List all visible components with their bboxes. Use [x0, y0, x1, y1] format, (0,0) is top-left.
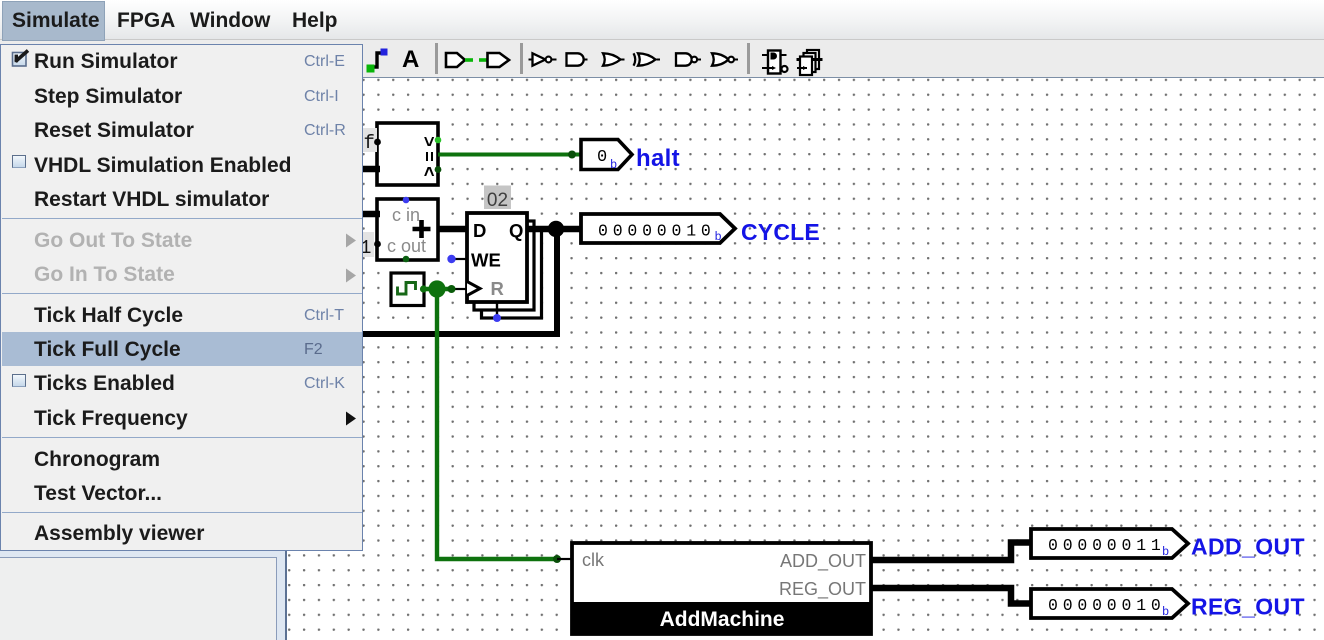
- wire: register Q output bus: [527, 226, 581, 233]
- svg-text:A: A: [402, 46, 419, 73]
- tool: NOR gate icon: [712, 53, 738, 65]
- toolbar separator: [747, 43, 750, 74]
- wire: ADD_OUT bus: [871, 543, 1031, 561]
- svg-text:b: b: [610, 158, 617, 172]
- toolbar separator: [520, 43, 523, 74]
- wire: adder output bus to register D: [438, 226, 467, 233]
- register value label 02: [484, 186, 511, 212]
- label REG_OUT: [1191, 594, 1305, 620]
- output pin CYCLE: [581, 214, 735, 244]
- svg-text:0: 0: [597, 148, 607, 167]
- wire: clock to junction (green): [424, 287, 449, 291]
- register R1 shadow 3: [482, 229, 542, 318]
- node: register clock pin (dark green): [448, 285, 456, 293]
- wire: bus from Q junction down and left: [356, 229, 557, 334]
- tool: edit wires icon: [367, 49, 388, 73]
- label halt: [636, 145, 680, 172]
- svg-text:AddMachine: AddMachine: [660, 608, 785, 631]
- node: comparator greater output (green): [435, 137, 442, 144]
- separator: [2, 437, 362, 438]
- toolbar separator: [435, 43, 438, 74]
- svg-text:WE: WE: [471, 250, 501, 271]
- node: comparator less output: [435, 166, 442, 173]
- output pin REG_OUT: [1031, 589, 1188, 619]
- tool: AND gate icon: [567, 53, 588, 65]
- constant f label: [363, 128, 377, 154]
- svg-text:b: b: [1162, 605, 1169, 619]
- svg-text:REG_OUT: REG_OUT: [1191, 594, 1305, 620]
- highlight: Tick Full Cycle row: [2, 332, 362, 367]
- node: register shadow pin (blue): [493, 314, 501, 322]
- tool: add subcircuit icon: [762, 51, 788, 74]
- tool: XOR gate icon: [634, 53, 661, 65]
- node: green wire junction: [428, 280, 445, 297]
- svg-text:ADD_OUT: ADD_OUT: [1191, 534, 1305, 560]
- wire: adder input A bus stub: [356, 211, 380, 218]
- subcircuit AddMachine: [571, 543, 872, 634]
- tool: NOT gate icon: [529, 53, 557, 65]
- label ADD_OUT: [1191, 534, 1305, 560]
- wire: clk stub into AddMachine: [557, 558, 572, 560]
- wire: clock stub to register: [452, 288, 467, 290]
- svg-text:f: f: [364, 132, 375, 154]
- svg-text:=: =: [417, 151, 437, 162]
- svg-text:clk: clk: [582, 550, 605, 570]
- toolbar: [0, 39, 1324, 78]
- node: adder input B pin: [374, 241, 381, 248]
- node: clock output (green): [420, 285, 427, 292]
- wire: comparator equal output to halt (green): [438, 153, 581, 157]
- menubar: [0, 0, 1324, 40]
- register R1: [467, 213, 527, 302]
- output pin ADD_OUT: [1031, 529, 1188, 559]
- canvas background with dot grid: [287, 78, 1324, 640]
- wire: register bottom pin stub: [496, 302, 498, 316]
- separator: [2, 293, 362, 294]
- label CYCLE: [741, 219, 820, 245]
- tool: OR gate icon: [603, 53, 625, 65]
- tool: text icon: [402, 46, 419, 73]
- node: comparator input A pin: [374, 139, 381, 146]
- tool: NAND gate icon: [676, 53, 701, 65]
- svg-text:00000011: 00000011: [1048, 536, 1166, 555]
- unchecked checkbox (VHDL): [12, 155, 26, 168]
- node: AddMachine clk pin (dark green): [553, 555, 561, 563]
- svg-text:R: R: [491, 278, 504, 299]
- node: halt pin input dot: [568, 151, 576, 159]
- svg-text:c out: c out: [387, 236, 426, 256]
- svg-text:CYCLE: CYCLE: [741, 219, 820, 245]
- wire: clock down to AddMachine clk (green): [437, 289, 556, 559]
- clock CLK1: [391, 273, 424, 306]
- svg-text:ADD_OUT: ADD_OUT: [780, 551, 866, 572]
- svg-text:00000010: 00000010: [1048, 596, 1166, 615]
- svg-text:>: >: [417, 136, 437, 147]
- svg-text:<: <: [417, 166, 437, 177]
- svg-text:D: D: [473, 220, 486, 241]
- svg-text:b: b: [1162, 545, 1169, 559]
- tool: output pin icon: [479, 53, 509, 67]
- node: WE floating (blue): [447, 255, 455, 263]
- separator: [2, 512, 362, 513]
- wire: REG_OUT bus: [871, 588, 1031, 604]
- wire: WE stub: [452, 258, 467, 260]
- output pin halt: [581, 140, 632, 173]
- register R1 shadow 2: [474, 221, 534, 310]
- popup menu: [0, 44, 363, 551]
- left bottom panel: [0, 551, 287, 640]
- svg-text:00000010: 00000010: [598, 222, 716, 241]
- svg-text:b: b: [715, 230, 722, 244]
- svg-text:REG_OUT: REG_OUT: [779, 579, 866, 600]
- adder U2: [377, 199, 438, 260]
- node: adder carry-out (green): [403, 256, 410, 263]
- separator: [2, 218, 362, 219]
- svg-text:02: 02: [487, 190, 508, 211]
- node: Q bus junction: [548, 221, 564, 237]
- tool: input pin icon: [446, 53, 473, 67]
- checked checkbox (Run Simulator): [10, 48, 32, 70]
- svg-text:halt: halt: [636, 145, 680, 172]
- wire: comparator input B bus stub: [356, 166, 380, 173]
- svg-text:c in: c in: [392, 205, 420, 225]
- unchecked checkbox (Ticks Enabled): [12, 374, 26, 387]
- node: adder carry-in (floating, blue): [403, 197, 410, 204]
- tool: subcircuit stack icon: [797, 50, 823, 75]
- comparator U1: [377, 123, 438, 185]
- svg-text:Q: Q: [509, 220, 523, 241]
- constant 1 label: [358, 232, 374, 259]
